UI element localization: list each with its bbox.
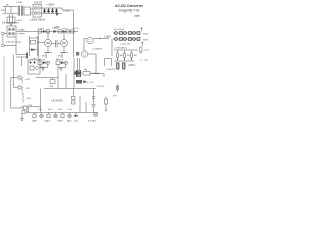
svg-text:+150V: +150V [104,36,111,39]
svg-text:a. 500 mA: a. 500 mA [120,43,130,46]
svg-text:to pilots: to pilots [18,32,26,35]
svg-text:6.3 VAC: 6.3 VAC [88,120,96,123]
svg-text:+6.3V: +6.3V [144,50,150,52]
svg-text:6SN7: 6SN7 [143,40,149,42]
svg-text:5Y3 GT: 5Y3 GT [97,86,105,88]
svg-text:5Y3-GT: 5Y3-GT [34,2,43,5]
svg-text:25V: 25V [29,105,33,107]
svg-text:page: page [134,15,140,18]
svg-text:100: 100 [127,55,130,57]
svg-text:a 350V 150mA: a 350V 150mA [30,19,46,22]
svg-text:12AT7: 12AT7 [57,120,64,123]
svg-text:1 meg: 1 meg [38,28,45,30]
svg-text:a 350V: a 350V [16,2,23,4]
svg-text:6SN7: 6SN7 [143,34,149,36]
svg-text:b1 b2 b3 b4: b1 b2 b3 b4 [114,29,124,31]
svg-text:Dragonfly T-41: Dragonfly T-41 [119,9,140,13]
svg-text:sw 500: sw 500 [63,11,71,13]
svg-text:+150mA: +150mA [91,72,100,75]
svg-text:6.3VAC: 6.3VAC [18,29,26,32]
svg-text:L 470: L 470 [52,28,58,30]
svg-text:12AU7: 12AU7 [44,120,51,123]
svg-text:+ 250V: + 250V [46,3,55,7]
svg-text:+25V: +25V [25,79,31,81]
svg-text:+250 =: +250 = [128,64,136,67]
svg-text:L.O.B. II: L.O.B. II [30,59,38,61]
svg-text:0A2 reg: 0A2 reg [56,58,63,61]
svg-text:+25V: +25V [26,98,32,100]
svg-text:0A2 reg: 0A2 reg [38,58,45,61]
svg-text:+25V: +25V [25,88,31,90]
svg-text:a: 500mA fuse: a: 500mA fuse [114,47,128,50]
svg-text:6.3v transformer: 6.3v transformer [2,22,19,25]
svg-text:a — 150: a — 150 [140,60,149,62]
svg-text:.01 m: .01 m [62,28,67,30]
svg-text:AC-DC Converter: AC-DC Converter [115,4,144,8]
svg-text:6.3v pilot lamps: 6.3v pilot lamps [6,41,22,44]
svg-text:115V: 115V [1,10,6,12]
svg-text:a. 6SN7GT: a. 6SN7GT [92,49,103,51]
svg-text:100: 100 [134,55,137,57]
svg-text:a + 0.5: a + 0.5 [87,82,94,84]
svg-text:12AX7: 12AX7 [32,120,39,123]
svg-text:100: 100 [120,55,123,57]
svg-text:PT 10: PT 10 [73,28,79,30]
svg-text:+150VDC: +150VDC [106,69,116,71]
svg-text:+6.3VAC: +6.3VAC [51,99,64,103]
